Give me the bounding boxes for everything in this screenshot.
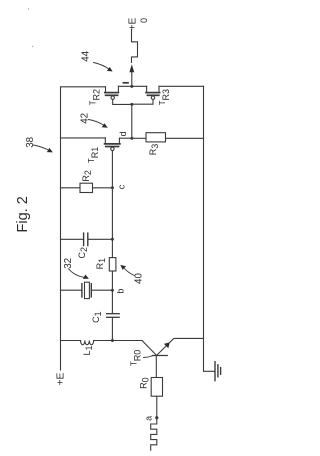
transistor TR1 (61, 138, 133, 188)
ground (215, 362, 221, 381)
transistor TR3 (132, 86, 160, 104)
speck (32, 46, 33, 47)
text labels (all rotated 90deg CCW) (25, 18, 171, 421)
svg-text:b: b (116, 289, 126, 294)
wire output tap (131, 72, 133, 86)
leader arrow 44 (94, 63, 110, 70)
node C2 junction (111, 238, 114, 241)
svg-text:+E: +E (55, 373, 66, 386)
transistor TR0 (142, 338, 204, 377)
leader arrow 38 (34, 145, 49, 150)
node C1 junction (111, 339, 114, 342)
node c junction (111, 186, 114, 189)
svg-text:R2: R2 (81, 170, 93, 182)
svg-text:32: 32 (63, 258, 74, 269)
svg-text:TR0: TR0 (130, 350, 143, 366)
wire drain bridge TR2-TR3 (118, 85, 146, 87)
transistor TR2 (105, 86, 132, 104)
wire right rail (204, 86, 215, 371)
svg-text:TR1: TR1 (87, 147, 100, 163)
inductor L1 (81, 341, 94, 345)
svg-text:TR2: TR2 (89, 89, 102, 105)
svg-text:40: 40 (133, 273, 144, 284)
resistor R1 (109, 258, 116, 271)
output arrow (129, 64, 134, 72)
svg-text:38: 38 (25, 136, 36, 147)
wire top rail segment left (61, 86, 106, 88)
leader arrow 42 (89, 120, 104, 126)
crystal 32 (61, 289, 82, 291)
svg-text:44: 44 (80, 50, 91, 61)
node gate junction (130, 103, 133, 106)
wire gates to node d (131, 104, 133, 138)
leader arrow 32 (69, 269, 85, 278)
resistor R2 (61, 187, 81, 189)
node output junction (130, 85, 133, 88)
svg-text:0: 0 (139, 18, 149, 23)
svg-text:+E: +E (128, 18, 139, 31)
svg-text:R1: R1 (95, 258, 107, 270)
leader TR0 (144, 356, 153, 358)
node a junction (155, 416, 158, 419)
svg-text:a: a (144, 416, 154, 421)
tick mark near output junction (123, 82, 128, 84)
output waveform (132, 30, 138, 63)
leader arrow 40 (125, 269, 135, 276)
wire left rail (+E supply rail) (60, 87, 62, 370)
svg-text:d: d (118, 131, 128, 136)
svg-text:c: c (116, 184, 126, 189)
resistor R3 (132, 137, 146, 139)
svg-text:C2: C2 (77, 247, 89, 259)
node b junction (111, 289, 114, 292)
capacitor C1 (107, 313, 120, 315)
svg-text:TR3: TR3 (158, 89, 171, 105)
wire central node line (111, 188, 113, 258)
svg-text:L1: L1 (82, 345, 94, 355)
capacitor C2 (61, 238, 84, 240)
speck (28, 8, 29, 9)
svg-text:Fig. 2: Fig. 2 (15, 196, 31, 232)
input squarewave (151, 418, 157, 451)
wire bottom rail (61, 340, 81, 342)
svg-text:42: 42 (79, 113, 90, 124)
node d junction (130, 137, 133, 140)
svg-text:C1: C1 (91, 311, 103, 323)
wire top rail segment right (159, 85, 204, 87)
svg-text:R3: R3 (148, 144, 160, 156)
resistor R0 (151, 378, 162, 397)
svg-text:R0: R0 (139, 377, 151, 389)
